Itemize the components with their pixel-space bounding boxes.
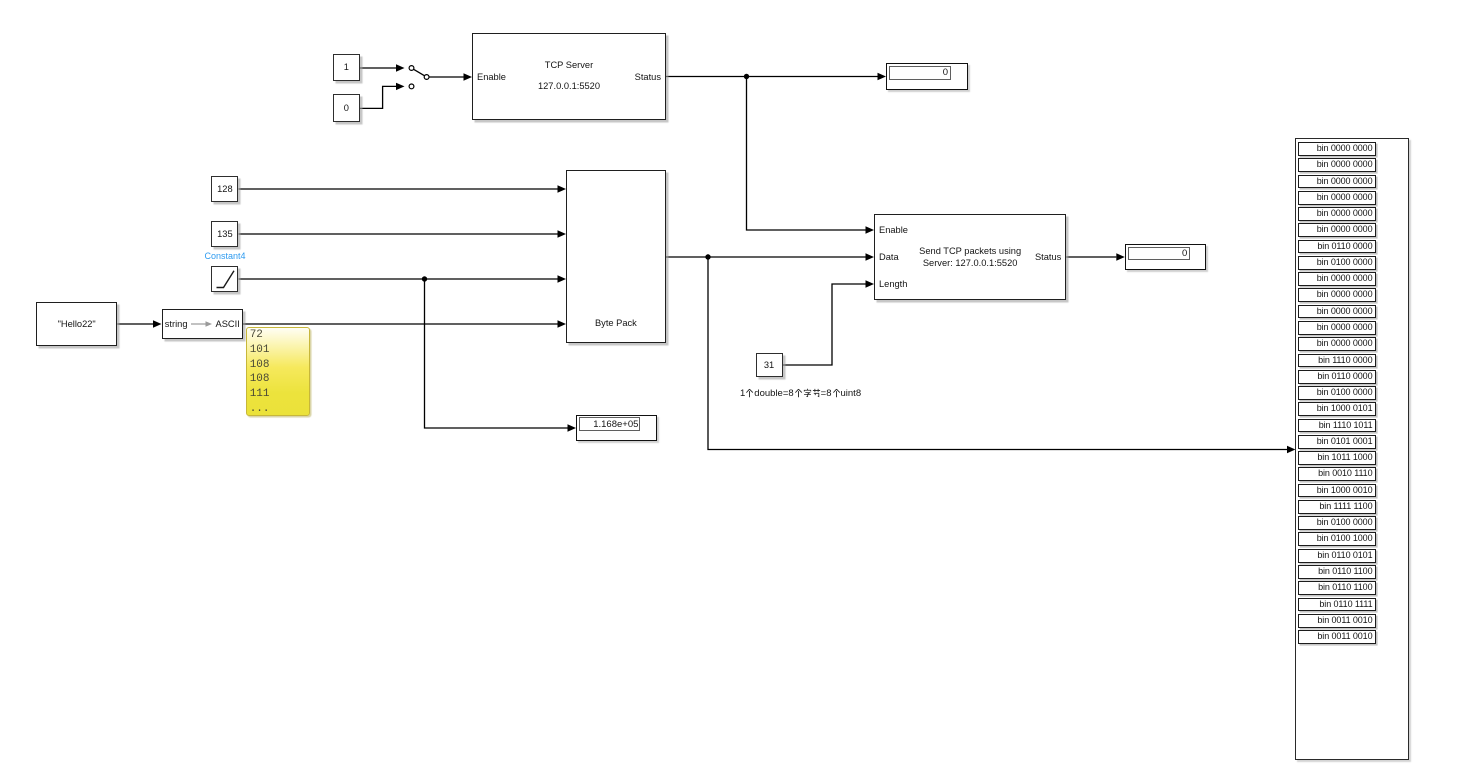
ramp icon (213, 268, 237, 291)
display 1.168e+05 (576, 415, 657, 441)
yellow annotation note (246, 327, 310, 416)
constant block 1 (333, 54, 361, 82)
wire constant 135 to Byte Pack (239, 233, 558, 235)
wire string-to-ASCII to Byte Pack (243, 323, 558, 325)
constant block 135 (211, 221, 238, 247)
wire Hello22 to string-to-ASCII (117, 323, 153, 325)
wire Byte Pack branch down to bin display (708, 257, 1287, 450)
constant block 31 (756, 353, 783, 378)
wire constant 31 to Send TCP Length (783, 284, 866, 365)
wire status branch down to Send TCP Enable (747, 77, 866, 231)
arrowhead into Byte Pack port 4 (558, 320, 567, 327)
arrowhead into 1.168e+05 display (568, 424, 577, 431)
string to ASCII block (162, 309, 243, 339)
bin rows (0, 0, 1466, 1)
constant block 0 (333, 94, 361, 122)
annotation 1个double=8个字节=8个uint8 (740, 388, 861, 399)
arrowhead into bin display (1287, 446, 1295, 453)
bin display container (1295, 138, 1408, 760)
arrowhead into TCP Server Enable (464, 73, 473, 80)
arrowhead into switch lower input (396, 83, 405, 90)
Hello22 string constant block (36, 302, 117, 346)
wire Send TCP Status to display (1066, 256, 1116, 258)
arrowhead into Byte Pack port 3 (558, 275, 567, 282)
wire constant 1 to switch (360, 67, 397, 69)
label Constant4 (205, 251, 246, 261)
wire Constant4 branch to display (425, 279, 568, 428)
arrowhead into status display (878, 73, 887, 80)
TCP Server block (472, 33, 666, 120)
wire Byte Pack out to Send TCP Data (666, 256, 866, 258)
arrowhead into Send TCP Data (866, 253, 875, 260)
arrowhead into Byte Pack port 2 (558, 230, 567, 237)
wire switch diagonal (414, 69, 425, 75)
wire TCP Server Status to Display (666, 76, 878, 78)
junction dot on Constant4 wire (422, 276, 427, 281)
Send TCP packets block (874, 214, 1066, 301)
junction dot on Byte Pack output wire (705, 254, 710, 259)
constant block 128 (211, 176, 238, 202)
Byte Pack block (566, 170, 666, 344)
arrowhead into switch upper input (396, 64, 405, 71)
wire Constant4 to Byte Pack (239, 278, 558, 280)
ramp block Constant4 (211, 266, 238, 292)
arrowhead into Send TCP Enable (866, 226, 875, 233)
arrowhead into Send TCP status display (1116, 253, 1125, 260)
arrowhead into Byte Pack port 1 (558, 185, 567, 192)
wire switch common to TCP Server Enable (429, 76, 464, 78)
manual switch circles (409, 66, 429, 89)
junction dot on status wire (744, 74, 749, 79)
wire constant 0 to switch (360, 86, 397, 108)
arrowhead into string-to-ASCII (153, 320, 162, 327)
wire constant 128 to Byte Pack (239, 188, 558, 190)
arrowhead into Send TCP Length (866, 280, 875, 287)
display Status of Send TCP (1125, 244, 1207, 270)
display Status of TCP Server (886, 63, 967, 90)
